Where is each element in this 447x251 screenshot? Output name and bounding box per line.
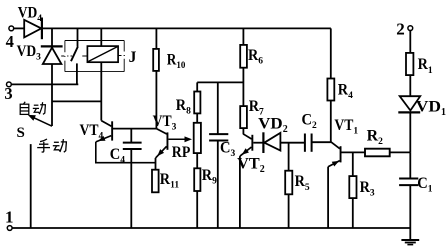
svg-text:6: 6 [258, 56, 263, 66]
svg-text:VT: VT [334, 117, 354, 134]
resistor R4 [327, 79, 334, 143]
svg-text:2: 2 [260, 164, 265, 175]
svg-text:3: 3 [36, 52, 41, 62]
resistor R1 [406, 53, 413, 96]
resistor R8 [194, 82, 200, 122]
wire VT3 emitter to R11 [155, 158, 157, 170]
relay contact upper lead from rail [77, 28, 79, 46]
resistor R9 [194, 168, 200, 228]
diode VD4 [24, 18, 42, 40]
resistor R5 [285, 143, 292, 228]
transistor VT4 [96, 121, 113, 142]
svg-text:VT: VT [153, 113, 173, 130]
resistor R3 [349, 176, 356, 228]
svg-text:11: 11 [170, 180, 179, 190]
svg-text:3: 3 [4, 84, 12, 103]
svg-text:J: J [129, 49, 137, 66]
capacitor C2 [305, 134, 312, 152]
label zidong (auto) [20, 102, 29, 115]
svg-text:4: 4 [348, 91, 353, 101]
wire VT1 to output node [342, 151, 366, 153]
svg-text:VD: VD [17, 43, 36, 60]
capacitor C4 [123, 129, 142, 228]
transistor VT1 [328, 142, 341, 167]
transistor VT2 [240, 134, 253, 156]
node VD3 drop from rail [51, 28, 53, 46]
wire terminal4 to VD4 [14, 27, 25, 29]
svg-text:2: 2 [283, 124, 288, 135]
node line R8-C3-R6R7 [197, 81, 243, 83]
svg-text:C: C [110, 146, 121, 163]
relay contact moving slash [71, 47, 78, 62]
svg-text:VD: VD [416, 98, 441, 115]
svg-text:1: 1 [428, 66, 433, 76]
wire terminal2 to R1 [409, 31, 411, 53]
wire bottom rail (ground bus) [12, 227, 410, 229]
terminal 2 [408, 26, 413, 31]
resistor R7 [240, 106, 247, 134]
svg-text:S: S [17, 125, 25, 141]
diode VD3 [41, 46, 63, 64]
svg-text:VT: VT [80, 122, 100, 139]
svg-text:2: 2 [378, 137, 383, 147]
wire VT4 emitter down and right [96, 142, 156, 163]
resistor R6 [240, 28, 247, 106]
terminal 1 [7, 226, 12, 231]
svg-text:1: 1 [441, 107, 446, 118]
svg-text:1: 1 [5, 207, 14, 226]
potentiometer wiper arrow from VT3 base to RP [168, 136, 192, 142]
wire VT1 emitter to bottom rail [327, 167, 329, 228]
svg-text:C: C [417, 175, 428, 192]
wire VD3 anode down to switch pivot [51, 64, 53, 126]
capacitor C3 [209, 82, 228, 228]
relay coil J [87, 46, 118, 62]
wire relay-coil node left to VD3 line [52, 100, 101, 102]
svg-text:9: 9 [212, 177, 217, 187]
relay coil lead from rail [100, 28, 102, 46]
svg-text:R: R [367, 127, 379, 144]
resistor R2 (horizontal) [365, 149, 390, 157]
relay enclosure box J (dash-dot border) [64, 41, 124, 72]
svg-text:5: 5 [305, 183, 310, 193]
svg-text:3: 3 [231, 149, 236, 159]
svg-text:3: 3 [370, 188, 375, 198]
wire VD1 to output node [409, 112, 411, 152]
wire rail corner down to R4 [330, 28, 332, 78]
svg-text:C: C [302, 112, 313, 129]
wire VT4 base to VT3 collector node [113, 128, 156, 130]
svg-text:VD: VD [258, 116, 283, 133]
svg-text:2: 2 [396, 20, 405, 39]
svg-text:4: 4 [37, 14, 42, 24]
wire VT2 emitter to bottom rail [239, 156, 241, 228]
svg-text:4: 4 [120, 155, 125, 165]
svg-text:1: 1 [428, 184, 433, 194]
svg-text:C: C [220, 139, 231, 156]
mechanical linkage dash-dot left [61, 55, 87, 57]
wire relay coil down to VT4 collector [100, 62, 102, 120]
resistor R10 [153, 28, 159, 128]
resistor R11 [152, 170, 159, 193]
capacitor C1 [399, 152, 418, 228]
svg-text:1: 1 [353, 126, 358, 136]
svg-text:4: 4 [99, 132, 104, 142]
svg-text:8: 8 [186, 107, 191, 117]
svg-text:2: 2 [312, 121, 317, 131]
svg-text:RP: RP [172, 144, 191, 161]
svg-text:3: 3 [172, 123, 177, 133]
wire manual contact down to bottom rail [30, 144, 32, 228]
terminal 4 [9, 26, 14, 31]
wire C2 to VT1 [312, 141, 331, 143]
wire R3 tap [352, 152, 354, 176]
potentiometer RP body [194, 123, 201, 169]
switch S wiper arm with arrow (auto position) [28, 115, 52, 126]
wire R2 to output junction [390, 151, 411, 153]
mechanical linkage dash-dot right [118, 55, 124, 57]
terminal 3 [6, 82, 11, 87]
svg-text:VD: VD [18, 5, 38, 22]
label shoudong (manual) [37, 139, 50, 152]
wire top rail [42, 27, 331, 29]
wire VD2 anode to C2 [280, 142, 305, 144]
wire VT2 base to VD2 [253, 142, 262, 144]
ground symbol [401, 228, 419, 245]
svg-text:4: 4 [6, 32, 14, 51]
diode VD2 [263, 132, 280, 153]
wire terminal3 to relay contact [11, 83, 78, 85]
diode VD1 [398, 96, 420, 112]
svg-text:10: 10 [176, 60, 186, 70]
transistor VT3 [156, 129, 169, 158]
relay contact lower lead [76, 63, 78, 84]
